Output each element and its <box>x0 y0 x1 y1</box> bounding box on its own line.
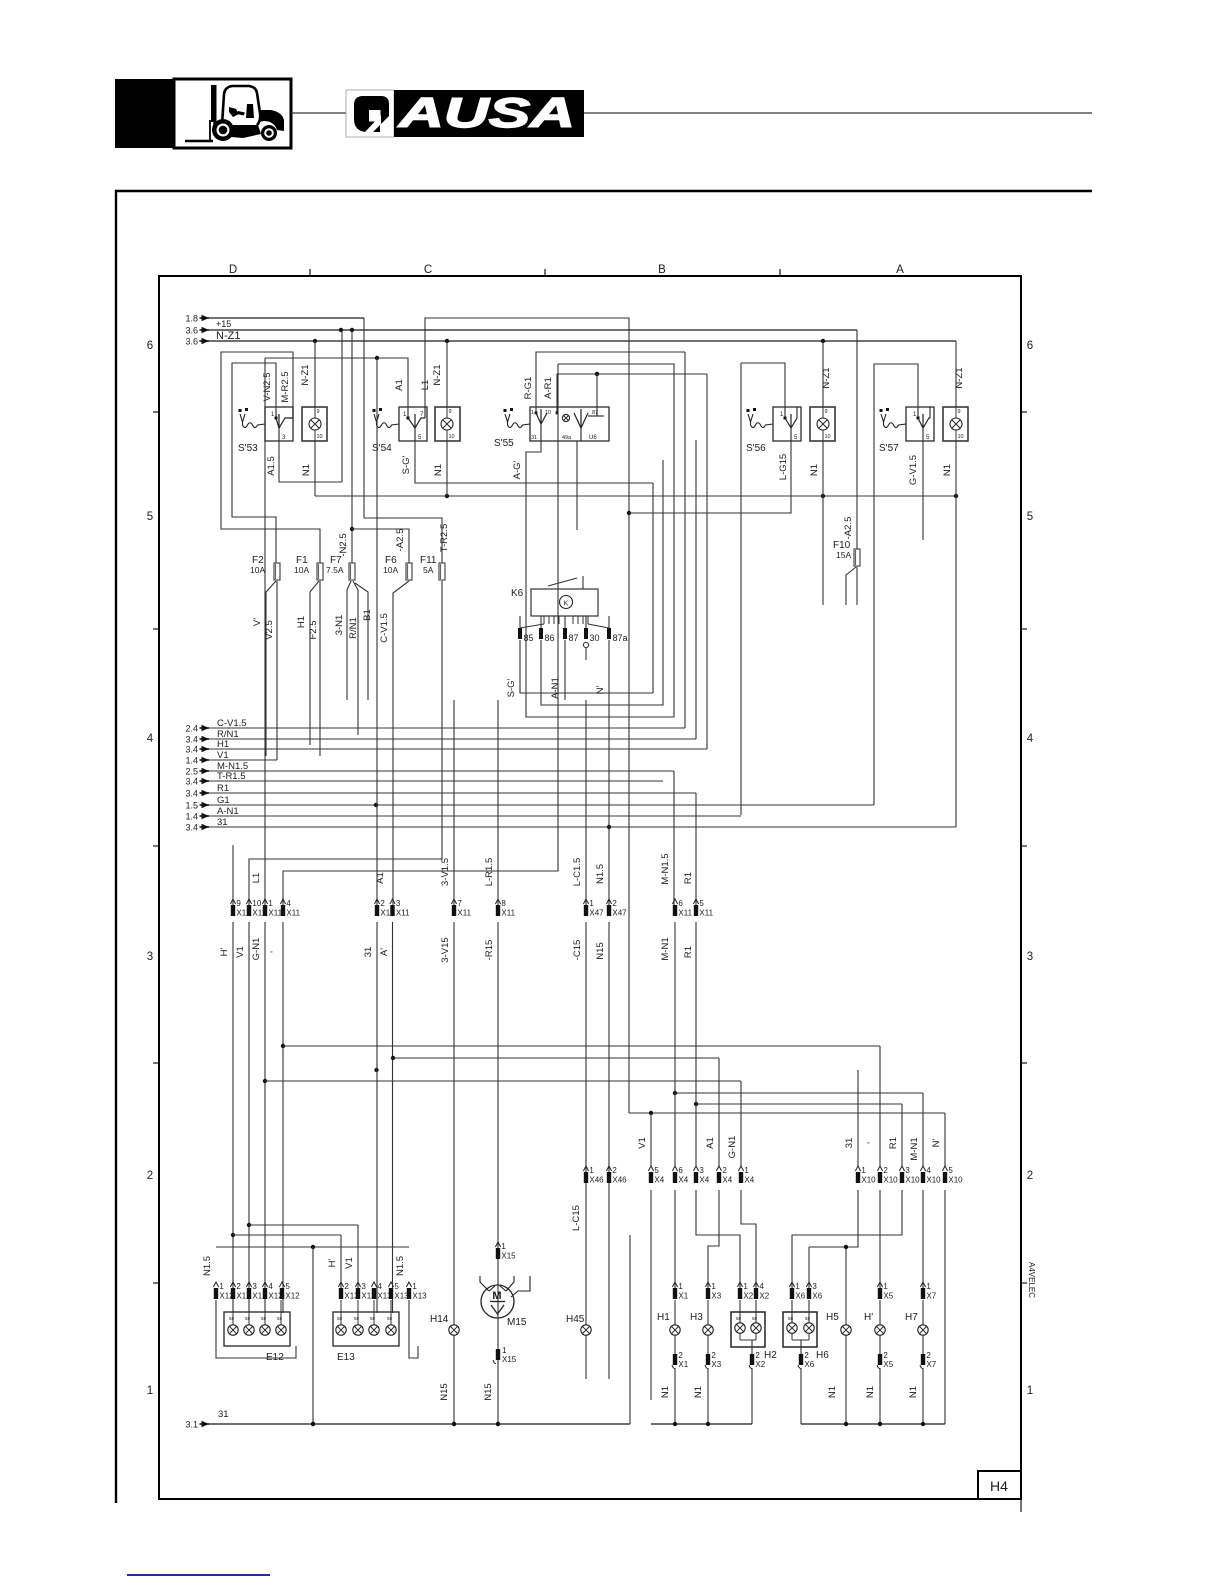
svg-text:X10: X10 <box>861 1176 876 1185</box>
svg-text:5: 5 <box>1027 511 1033 523</box>
svg-text:3.6: 3.6 <box>185 337 198 347</box>
motor M15 <box>480 1242 530 1401</box>
wire H1 riser <box>706 374 708 749</box>
switch S'55 hazard <box>494 407 609 449</box>
wire N-Z1 bus <box>209 339 956 343</box>
wire 49a stub <box>576 441 578 530</box>
svg-text:K: K <box>564 601 569 608</box>
row1 labels E13 <box>327 1257 355 1269</box>
wire X10-1 to H6 <box>809 1190 858 1288</box>
entry arrow 2.4 C-V1.5 <box>185 724 209 734</box>
svg-text:87a: 87a <box>613 633 628 643</box>
wire F10 out a <box>846 567 856 605</box>
svg-text:C-V1.5: C-V1.5 <box>379 613 390 643</box>
svg-text:H1: H1 <box>217 739 229 750</box>
entry arrow 1.8 <box>185 314 209 324</box>
svg-text:X4: X4 <box>699 1176 709 1185</box>
svg-text:G-N1: G-N1 <box>727 1136 738 1159</box>
svg-text:L-G15: L-G15 <box>778 454 789 480</box>
wire M-N1.5 mid <box>674 922 676 1166</box>
wire A-N1 to S56 <box>741 363 785 407</box>
entry arrow 3.4 T-R1.5 <box>185 777 209 787</box>
svg-text:2: 2 <box>722 1166 727 1175</box>
svg-text:1: 1 <box>147 1385 153 1397</box>
svg-text:1: 1 <box>743 1282 748 1291</box>
fuse F7 <box>326 555 355 580</box>
svg-text:7.5A: 7.5A <box>326 565 344 575</box>
wire 31/A1 chain <box>376 922 378 1313</box>
svg-text:V1: V1 <box>637 1137 648 1149</box>
svg-text:3-V15: 3-V15 <box>440 937 451 962</box>
svg-text:L1: L1 <box>251 873 262 884</box>
svg-text:X10: X10 <box>948 1176 963 1185</box>
wire G1 junction <box>374 803 378 807</box>
wire V' from F2 <box>252 581 276 756</box>
wire N1 lamp5 <box>942 441 956 827</box>
wire A-R1 feed <box>543 372 707 407</box>
svg-text:A1: A1 <box>394 379 405 391</box>
svg-text:1: 1 <box>678 1282 683 1291</box>
wire M-N1 X10 <box>922 1093 924 1166</box>
entry arrow 3.4 R/N1 <box>185 735 209 745</box>
svg-text:1: 1 <box>795 1282 800 1291</box>
lamp H6 <box>783 1282 829 1424</box>
svg-text:6: 6 <box>1027 340 1033 352</box>
svg-text:H5: H5 <box>826 1312 839 1323</box>
svg-text:T-R2.5: T-R2.5 <box>439 524 450 553</box>
lamp H5 <box>826 1247 851 1424</box>
svg-text:X11: X11 <box>699 909 713 918</box>
bus V1 row2 <box>283 1045 880 1047</box>
svg-text:S-G': S-G' <box>401 455 412 474</box>
svg-text:7: 7 <box>457 899 462 908</box>
connector X10 <box>855 1166 963 1185</box>
wire R/N1 row <box>209 729 696 740</box>
row3 lower labels <box>219 937 694 962</box>
svg-text:1.8: 1.8 <box>185 314 198 324</box>
wire T-R1.5 row <box>209 771 663 782</box>
wire stub X11-8 <box>497 700 499 905</box>
svg-text:5: 5 <box>699 899 704 908</box>
svg-text:9: 9 <box>958 409 961 415</box>
svg-text:3: 3 <box>905 1166 910 1175</box>
wire F11 feed <box>364 518 442 563</box>
frame tick marks <box>153 269 1027 1512</box>
lamp indicator 4 <box>810 407 835 441</box>
column labels <box>229 264 904 276</box>
svg-text:58: 58 <box>387 1316 393 1321</box>
svg-text:30: 30 <box>590 633 600 643</box>
svg-text:1.4: 1.4 <box>185 756 198 766</box>
svg-text:A1.5: A1.5 <box>266 456 277 476</box>
svg-text:G1: G1 <box>217 795 230 806</box>
svg-text:X2: X2 <box>743 1292 753 1301</box>
svg-text:4: 4 <box>286 899 291 908</box>
entry arrow 3.6 b <box>185 337 209 347</box>
bus E12-E13 N1.5 <box>216 1245 409 1249</box>
wire L-G15 <box>629 441 791 513</box>
svg-text:58: 58 <box>370 1316 376 1321</box>
svg-text:H3: H3 <box>690 1312 703 1323</box>
svg-text:3.4: 3.4 <box>185 823 198 833</box>
entry arrow 3.4 H1 <box>185 745 209 755</box>
svg-text:X5: X5 <box>883 1360 893 1369</box>
wire E13 return <box>395 1256 418 1358</box>
svg-text:H': H' <box>219 947 230 956</box>
wire C-V1.5 from F6 <box>379 581 409 905</box>
wire X4-5 stub <box>650 1190 652 1400</box>
svg-text:N-Z1: N-Z1 <box>954 367 965 388</box>
svg-text:10A: 10A <box>250 565 265 575</box>
svg-text:6: 6 <box>147 340 153 352</box>
svg-text:R/N1: R/N1 <box>348 617 359 639</box>
wire stub X47-1 <box>585 700 587 905</box>
svg-text:K6: K6 <box>511 588 524 599</box>
svg-text:10: 10 <box>545 410 551 416</box>
wire G-V1.5 <box>908 441 923 540</box>
svg-text:S'54: S'54 <box>372 443 392 454</box>
lamp indicator 2 <box>435 407 460 441</box>
wire B1 from F7 <box>355 583 373 700</box>
svg-text:86: 86 <box>545 633 555 643</box>
header connector line right <box>584 112 1092 114</box>
wire A-N1 K6-86 <box>541 460 663 705</box>
wire C-V1.5 riser <box>684 352 686 728</box>
wire ' X10 <box>879 1046 881 1166</box>
svg-text:X10: X10 <box>926 1176 941 1185</box>
connector X4 <box>648 1166 754 1185</box>
svg-text:5: 5 <box>654 1166 659 1175</box>
svg-text:3-N1: 3-N1 <box>334 615 345 636</box>
wire L-C15 chain <box>571 922 586 1325</box>
connector X46 <box>583 1166 627 1185</box>
svg-text:N15: N15 <box>483 1383 494 1400</box>
title block H4 <box>978 1471 1021 1499</box>
svg-text:V-N2.5: V-N2.5 <box>262 372 273 401</box>
svg-text:N1: N1 <box>908 1386 919 1398</box>
AUSA logo text block <box>394 89 584 137</box>
svg-text:6: 6 <box>678 1166 683 1175</box>
wire 3-N1 from F7 <box>334 581 351 700</box>
svg-text:N': N' <box>595 685 606 694</box>
row2 upper labels <box>637 1136 942 1161</box>
outer frame <box>116 191 1092 1503</box>
wire C-V1.5 row <box>209 718 685 729</box>
svg-text:N': N' <box>931 1138 942 1147</box>
svg-text:58: 58 <box>752 1316 758 1321</box>
wire R1 mid <box>695 922 697 1166</box>
AUSA logo mark <box>354 96 389 132</box>
svg-text:58: 58 <box>229 1316 235 1321</box>
svg-text:1: 1 <box>219 1282 224 1291</box>
svg-text:2: 2 <box>883 1351 888 1360</box>
svg-text:V': V' <box>252 618 263 626</box>
svg-text:S-G': S-G' <box>506 678 517 697</box>
wire A-G' <box>512 364 674 717</box>
fuse F10 <box>833 517 860 566</box>
svg-text:8: 8 <box>501 899 506 908</box>
wire X11-4 feed <box>283 364 558 905</box>
wire X10-3 to H6-1 <box>792 1190 902 1288</box>
svg-text:R1: R1 <box>683 946 694 958</box>
wire 31 bottom bus b <box>651 1422 752 1426</box>
lamp H14 <box>430 1314 459 1401</box>
svg-text:2: 2 <box>344 1282 349 1291</box>
svg-text:31: 31 <box>844 1138 855 1149</box>
svg-text:R1: R1 <box>683 872 694 884</box>
svg-text:X47: X47 <box>589 909 604 918</box>
svg-text:4: 4 <box>759 1282 764 1291</box>
svg-text:X11: X11 <box>396 909 410 918</box>
wire V1 chain <box>247 922 251 1313</box>
svg-text:15A: 15A <box>836 550 851 560</box>
svg-text:58: 58 <box>337 1316 343 1321</box>
wire N1.5 drop <box>311 1247 315 1426</box>
wire V1 row <box>209 750 277 761</box>
svg-text:X10: X10 <box>905 1176 920 1185</box>
wire X4-1 to H2-4 <box>741 1190 756 1288</box>
svg-text:3: 3 <box>361 1282 366 1291</box>
entry arrow 2.5 M-N1.5 <box>185 767 209 777</box>
svg-text:V2.5: V2.5 <box>264 620 275 640</box>
connector X47 <box>583 899 627 918</box>
wire F10 out b <box>856 567 858 605</box>
svg-text:M15: M15 <box>507 1317 527 1328</box>
header connector line left <box>291 112 346 114</box>
svg-text:1: 1 <box>711 1282 716 1291</box>
wire N1 lamp1 <box>301 441 315 496</box>
svg-text:X7: X7 <box>926 1292 936 1301</box>
wire G-N1 chain <box>263 922 267 1313</box>
svg-text:+15: +15 <box>216 319 231 329</box>
svg-text:N1: N1 <box>301 464 312 476</box>
switch S'56 <box>746 407 801 454</box>
svg-text:L1: L1 <box>420 380 431 391</box>
wire M-N2.5 drop <box>338 330 354 563</box>
wire N-Z1 to lamp2 <box>432 341 447 407</box>
svg-text:1: 1 <box>589 899 594 908</box>
wire +15 bus <box>209 318 364 329</box>
svg-text:10: 10 <box>825 434 831 440</box>
svg-text:5A: 5A <box>423 565 434 575</box>
svg-text:3: 3 <box>147 951 153 963</box>
svg-text:N1.5: N1.5 <box>595 864 606 884</box>
inner drawing frame <box>159 276 1021 1499</box>
wire 31 X10 stub <box>857 1070 859 1166</box>
svg-text:1: 1 <box>531 410 534 416</box>
svg-text:N1: N1 <box>865 1386 876 1398</box>
wire N1 lamp4 <box>809 441 823 605</box>
svg-text:3.4: 3.4 <box>185 777 198 787</box>
svg-text:S'55: S'55 <box>494 438 514 449</box>
wire X10-4 to H7 <box>922 1190 924 1288</box>
svg-text:3.4: 3.4 <box>185 735 198 745</box>
wire F6 feed <box>352 529 409 563</box>
lamp H2 <box>731 1282 777 1424</box>
svg-text:5: 5 <box>948 1166 953 1175</box>
wire X4-2 to H3 <box>708 1190 719 1288</box>
relay K6 <box>511 576 628 660</box>
svg-text:6: 6 <box>678 899 683 908</box>
svg-text:4: 4 <box>268 1282 273 1291</box>
wire R1 riser <box>695 793 697 905</box>
svg-text:10: 10 <box>317 434 323 440</box>
wire G1 row <box>209 795 874 806</box>
svg-text:S'53: S'53 <box>238 443 258 454</box>
svg-text:A1: A1 <box>705 1137 716 1149</box>
svg-text:': ' <box>269 951 280 953</box>
wire V1 mid <box>650 1113 652 1166</box>
wire 31 bottom bus a <box>209 1409 630 1426</box>
svg-text:M-R2.5: M-R2.5 <box>280 371 291 402</box>
wire N-Z1 to lamp5 <box>954 341 965 407</box>
svg-text:3.1: 3.1 <box>185 1420 198 1430</box>
svg-text:M: M <box>492 1290 501 1302</box>
svg-text:H1: H1 <box>296 616 307 628</box>
wire X4-6 to H1 <box>674 1190 676 1288</box>
svg-text:N1: N1 <box>827 1386 838 1398</box>
svg-text:M-N1.5: M-N1.5 <box>660 853 671 884</box>
bus V1 row1 <box>249 1225 358 1288</box>
svg-text:2: 2 <box>147 1170 153 1182</box>
wire A-N1 row <box>209 806 741 817</box>
svg-text:3.4: 3.4 <box>185 789 198 799</box>
svg-text:2: 2 <box>236 1282 241 1291</box>
svg-text:A: A <box>896 264 904 276</box>
wire N-Z1 to lamp4 <box>821 341 832 407</box>
wire T-R from F11 <box>249 581 442 905</box>
svg-text:V1: V1 <box>344 1257 355 1269</box>
svg-text:X11: X11 <box>501 909 515 918</box>
svg-text:10: 10 <box>252 899 261 908</box>
wire M-R2.5 loop <box>221 352 320 563</box>
wire K6-87 <box>564 640 566 700</box>
svg-text:T-R1.5: T-R1.5 <box>217 771 246 782</box>
lamp module E13 <box>333 1282 427 1363</box>
wire M-N1.5 riser <box>673 771 675 905</box>
svg-text:4: 4 <box>1027 733 1034 745</box>
svg-text:N-Z1: N-Z1 <box>821 367 832 388</box>
fuse F11 <box>420 524 450 580</box>
svg-text:-A2.5: -A2.5 <box>395 529 406 552</box>
svg-text:58: 58 <box>736 1316 742 1321</box>
svg-text:X10: X10 <box>883 1176 898 1185</box>
bus N' row2 <box>629 1111 945 1115</box>
svg-text:X46: X46 <box>612 1176 627 1185</box>
svg-text:G-V1.5: G-V1.5 <box>908 455 919 485</box>
svg-text:X11: X11 <box>286 909 300 918</box>
svg-text:10: 10 <box>449 434 455 440</box>
svg-text:X1: X1 <box>678 1360 688 1369</box>
svg-text:X4: X4 <box>744 1176 754 1185</box>
wire V2.5 from F2 <box>264 581 277 760</box>
bus H' row1 <box>233 1235 341 1288</box>
svg-text:N15: N15 <box>595 942 606 959</box>
svg-text:S'56: S'56 <box>746 443 766 454</box>
svg-text:H14: H14 <box>430 1314 449 1325</box>
svg-text:H1: H1 <box>657 1312 670 1323</box>
svg-text:G-N1: G-N1 <box>251 938 262 961</box>
wire R1 row <box>209 783 696 794</box>
fuse F1 <box>294 555 323 580</box>
wire stub X11-7 <box>453 700 455 905</box>
svg-text:M-N1: M-N1 <box>660 937 671 960</box>
svg-text:A1: A1 <box>375 872 386 884</box>
svg-text:F2.5: F2.5 <box>308 620 319 639</box>
svg-text:1: 1 <box>744 1166 749 1175</box>
svg-text:1: 1 <box>883 1282 888 1291</box>
wire N-Z1 to lamp1 <box>300 341 315 407</box>
wire X11-4 chain <box>281 922 285 1313</box>
svg-text:X15: X15 <box>502 1355 517 1364</box>
svg-text:9: 9 <box>317 409 320 415</box>
svg-text:3: 3 <box>396 899 401 908</box>
svg-text:9: 9 <box>236 899 241 908</box>
row3 upper labels <box>251 853 694 886</box>
wire R1 X10 <box>901 1104 903 1166</box>
svg-text:N1: N1 <box>660 1386 671 1398</box>
wire A1.5 <box>266 330 342 482</box>
svg-text:2: 2 <box>755 1351 760 1360</box>
wire H1 row <box>209 739 707 750</box>
svg-text:N1: N1 <box>942 464 953 476</box>
svg-text:-N2.5: -N2.5 <box>338 533 349 556</box>
svg-text:A-G': A-G' <box>512 460 523 479</box>
wire S-G' <box>401 441 653 483</box>
svg-text:X4: X4 <box>654 1176 664 1185</box>
svg-text:31: 31 <box>218 1409 229 1420</box>
svg-text:H4: H4 <box>990 1478 1008 1494</box>
svg-text:2.4: 2.4 <box>185 724 198 734</box>
svg-text:-C15: -C15 <box>572 940 583 961</box>
svg-text:N1: N1 <box>433 464 444 476</box>
svg-text:X5: X5 <box>883 1292 893 1301</box>
svg-text:3.6: 3.6 <box>185 326 198 336</box>
wire stub X11-9 <box>232 845 234 905</box>
wire A' chain <box>391 922 395 1313</box>
wire A-N1 riser <box>740 363 742 815</box>
wire 31 bottom bus c <box>801 1422 945 1426</box>
bus G-N1 row2 <box>265 1080 741 1082</box>
label M-R2.5 <box>280 371 291 402</box>
lamp H3 <box>690 1282 722 1424</box>
lamp module E12 <box>213 1282 300 1363</box>
wire 31 row <box>209 817 956 828</box>
svg-text:L-C15: L-C15 <box>571 1205 582 1231</box>
wire E12 return <box>202 1256 296 1358</box>
svg-text:V1: V1 <box>235 946 246 958</box>
svg-text:3.4: 3.4 <box>185 745 198 755</box>
svg-text:1.5: 1.5 <box>185 801 198 811</box>
svg-text:1: 1 <box>412 1282 417 1291</box>
svg-text:10A: 10A <box>383 565 398 575</box>
svg-text:X2: X2 <box>759 1292 769 1301</box>
svg-text:H2: H2 <box>764 1350 777 1361</box>
forklift pictogram box <box>174 79 291 148</box>
AUSA logo mark box <box>346 90 394 137</box>
svg-text:58: 58 <box>277 1316 283 1321</box>
svg-text:X4: X4 <box>722 1176 732 1185</box>
svg-text:R-G1: R-G1 <box>523 377 534 400</box>
lamp indicator 5 <box>943 407 968 441</box>
wire 3-V15 chain <box>452 922 456 1426</box>
svg-text:B1: B1 <box>362 609 373 621</box>
svg-text:X4: X4 <box>678 1176 688 1185</box>
connector X11 <box>230 899 713 918</box>
svg-text:X11: X11 <box>457 909 471 918</box>
row labels left <box>147 340 154 1397</box>
svg-text:N15: N15 <box>439 1383 450 1400</box>
